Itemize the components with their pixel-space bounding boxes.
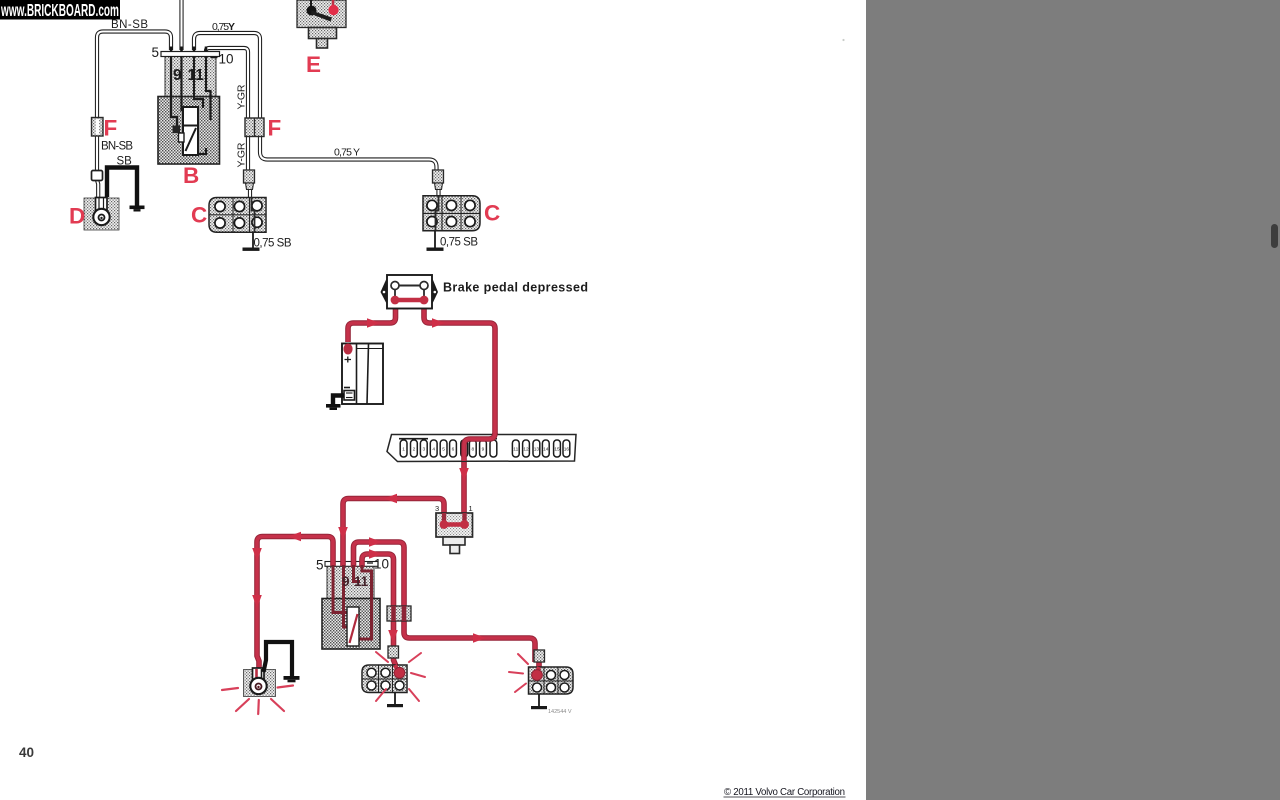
svg-text:3: 3 [422, 447, 425, 453]
svg-text:0,75 SB: 0,75 SB [254, 238, 292, 250]
svg-text:1: 1 [402, 447, 405, 453]
svg-text:9: 9 [342, 574, 350, 589]
svg-text:0,75Y: 0,75Y [212, 21, 235, 33]
svg-text:C: C [191, 203, 207, 228]
svg-text:0,75 Y: 0,75 Y [334, 147, 360, 159]
svg-text:15: 15 [554, 447, 560, 453]
svg-text:10: 10 [374, 557, 389, 572]
svg-text:5: 5 [442, 447, 445, 453]
svg-text:SB: SB [117, 156, 133, 168]
svg-text:1: 1 [469, 504, 473, 513]
svg-text:Y-GR: Y-GR [236, 142, 248, 167]
svg-text:11: 11 [188, 67, 205, 84]
svg-text:D: D [69, 204, 85, 229]
svg-text:F: F [104, 116, 118, 141]
svg-text:E: E [306, 52, 321, 77]
svg-text:© 2011 Volvo Car Corporation: © 2011 Volvo Car Corporation [724, 787, 845, 798]
svg-text:11: 11 [354, 574, 369, 589]
svg-text:Brake pedal depressed: Brake pedal depressed [443, 281, 588, 295]
svg-text:6: 6 [452, 447, 455, 453]
svg-text:0,75 SB: 0,75 SB [440, 237, 478, 249]
svg-text:2: 2 [413, 447, 416, 453]
svg-text:BN-SB: BN-SB [111, 19, 148, 31]
svg-text:142544 V: 142544 V [548, 709, 572, 715]
svg-text:C: C [484, 201, 500, 226]
svg-text:13: 13 [534, 447, 540, 453]
svg-text:16: 16 [564, 447, 570, 453]
svg-text:5: 5 [316, 558, 324, 573]
svg-text:5: 5 [152, 45, 160, 60]
svg-text:F: F [268, 116, 282, 141]
svg-text:www.BRICKBOARD.com: www.BRICKBOARD.com [0, 0, 119, 20]
svg-text:11: 11 [513, 447, 518, 453]
svg-text:9: 9 [482, 447, 485, 453]
svg-text:9: 9 [173, 67, 182, 84]
svg-text:BN-SB: BN-SB [101, 141, 133, 153]
svg-text:Y-GR: Y-GR [236, 84, 248, 109]
svg-text:3: 3 [435, 504, 439, 513]
svg-text:10: 10 [219, 52, 234, 67]
svg-text:8: 8 [471, 447, 474, 453]
svg-text:4: 4 [432, 447, 435, 453]
svg-text:40: 40 [19, 745, 34, 760]
svg-text:12: 12 [523, 447, 529, 453]
svg-text:14: 14 [543, 447, 549, 453]
svg-text:B: B [183, 163, 199, 188]
